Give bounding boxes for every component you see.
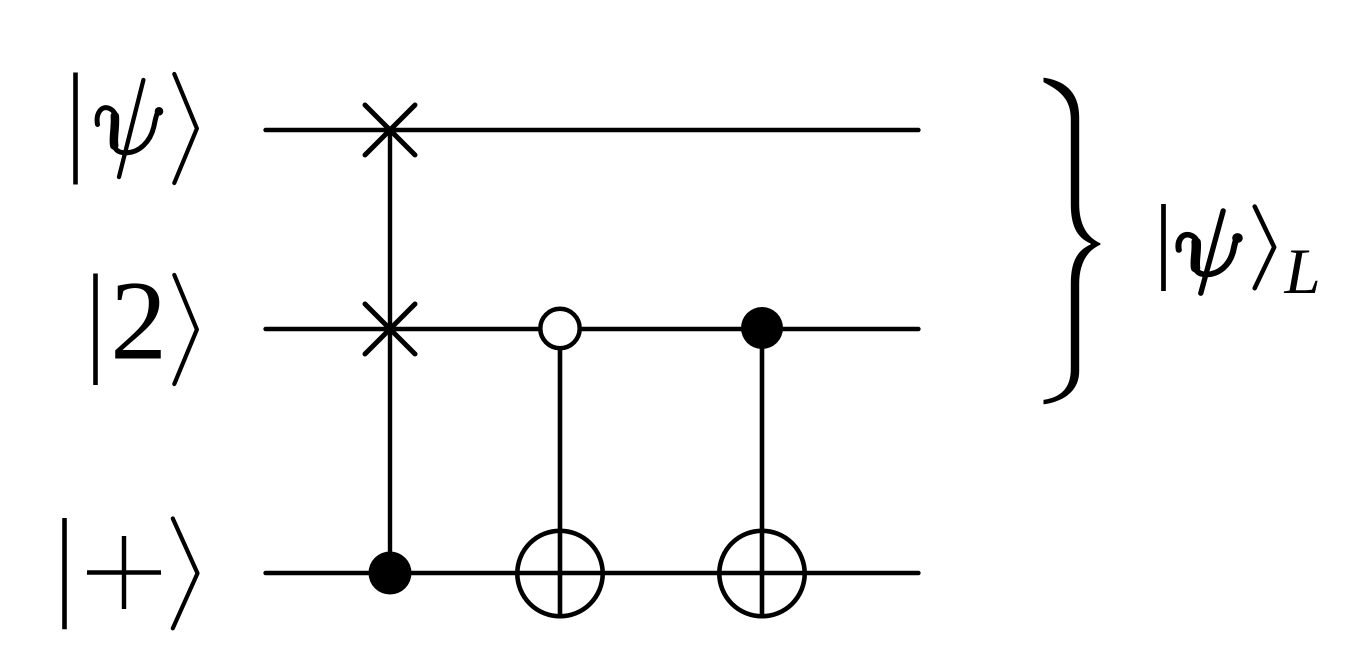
node label ket-plus (input qubit 3) (65, 518, 198, 629)
gate fredkin control dot on qubit-3 (369, 552, 412, 595)
gate fredkin vertical wire (388, 130, 392, 573)
gate cnot1 vertical wire (558, 329, 563, 618)
node label ket-psi (input qubit 1) (76, 73, 197, 185)
gate fredkin swap-cross on qubit-1 (365, 105, 415, 155)
gate cnot2 target oplus on qubit-3 (719, 531, 804, 616)
gate cnot2 control dot on qubit-2 (741, 307, 783, 349)
gate fredkin swap-cross on qubit-2 (365, 304, 415, 354)
gate cnot1 target oplus on qubit-3 (517, 531, 602, 616)
wire qubit-1 (266, 128, 919, 133)
gate cnot2 vertical wire (760, 328, 765, 618)
node label ket-2 (input qubit 2) (96, 274, 197, 386)
node label ket-psi-L (logical qubit) (1164, 204, 1321, 308)
wire qubit-3 (266, 571, 919, 576)
wire qubit-2 (266, 327, 919, 332)
gate cnot1 open control on qubit-2 (540, 309, 579, 348)
brace grouping qubits 1-2 (1044, 78, 1101, 405)
svg-text:L: L (1284, 236, 1321, 308)
svg-text:2: 2 (110, 258, 167, 384)
